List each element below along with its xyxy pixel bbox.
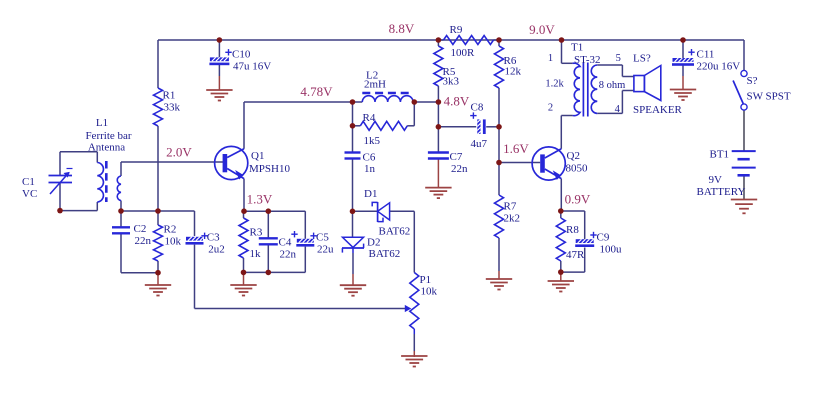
svg-text:2mH: 2mH [364, 79, 386, 91]
svg-text:22n: 22n [135, 235, 152, 247]
svg-text:3k3: 3k3 [443, 76, 460, 88]
svg-text:33k: 33k [164, 102, 181, 114]
svg-text:ST-32: ST-32 [574, 54, 601, 66]
svg-text:9.0V: 9.0V [529, 22, 555, 37]
svg-text:R8: R8 [566, 224, 579, 236]
svg-text:1.6V: 1.6V [503, 141, 529, 156]
svg-text:8 ohm: 8 ohm [599, 80, 626, 91]
svg-text:MPSH10: MPSH10 [249, 163, 290, 175]
svg-text:R4: R4 [363, 112, 376, 124]
svg-text:2k2: 2k2 [504, 213, 521, 225]
svg-text:C10: C10 [232, 49, 251, 61]
svg-text:1n: 1n [364, 163, 376, 175]
svg-text:4.8V: 4.8V [444, 94, 470, 109]
svg-text:4: 4 [615, 104, 621, 115]
svg-text:22n: 22n [280, 249, 297, 261]
svg-text:22u: 22u [317, 244, 334, 256]
svg-text:8050: 8050 [566, 163, 589, 175]
svg-text:1.2k: 1.2k [545, 79, 564, 90]
svg-text:D2: D2 [367, 237, 380, 249]
svg-text:C8: C8 [471, 102, 484, 114]
svg-text:0.9V: 0.9V [565, 192, 591, 207]
svg-text:BATTERY: BATTERY [697, 186, 746, 198]
svg-text:8.8V: 8.8V [389, 21, 415, 36]
svg-text:Antenna: Antenna [88, 142, 125, 154]
svg-text:100u: 100u [600, 244, 623, 256]
svg-text:Q2: Q2 [567, 150, 580, 162]
svg-text:4.78V: 4.78V [300, 84, 333, 99]
svg-text:VC: VC [22, 188, 37, 200]
svg-text:22n: 22n [451, 163, 468, 175]
svg-text:10k: 10k [165, 236, 182, 248]
svg-text:R3: R3 [250, 227, 263, 239]
svg-text:5: 5 [616, 53, 621, 64]
svg-text:C4: C4 [279, 237, 292, 249]
svg-text:R9: R9 [450, 24, 463, 36]
svg-text:9V: 9V [709, 174, 723, 186]
svg-text:BT1: BT1 [710, 149, 730, 161]
svg-text:SW SPST: SW SPST [747, 91, 791, 103]
svg-text:R2: R2 [164, 224, 177, 236]
svg-text:2u2: 2u2 [208, 244, 225, 256]
svg-text:1k: 1k [250, 248, 262, 260]
svg-text:L1: L1 [96, 117, 108, 129]
svg-text:47R: 47R [566, 249, 585, 261]
svg-text:C9: C9 [597, 232, 610, 244]
svg-text:C2: C2 [134, 223, 147, 235]
svg-text:10k: 10k [421, 286, 438, 298]
svg-text:Ferrite bar: Ferrite bar [85, 130, 131, 142]
svg-text:12k: 12k [505, 66, 522, 78]
svg-text:47u 16V: 47u 16V [233, 61, 271, 73]
svg-text:220u 16V: 220u 16V [697, 61, 741, 73]
svg-text:BAT62: BAT62 [379, 226, 411, 238]
svg-text:C3: C3 [207, 232, 220, 244]
svg-text:C7: C7 [450, 151, 463, 163]
svg-text:C1: C1 [22, 176, 35, 188]
svg-text:P1: P1 [420, 274, 432, 286]
svg-text:BAT62: BAT62 [369, 248, 401, 260]
svg-text:C6: C6 [363, 152, 376, 164]
svg-text:4u7: 4u7 [471, 138, 488, 150]
svg-text:1k5: 1k5 [364, 135, 381, 147]
svg-text:S?: S? [747, 75, 758, 87]
svg-text:R7: R7 [504, 201, 517, 213]
svg-text:100R: 100R [451, 47, 476, 59]
svg-text:Q1: Q1 [251, 150, 264, 162]
svg-text:T1: T1 [571, 42, 583, 54]
svg-text:SPEAKER: SPEAKER [633, 104, 683, 116]
svg-text:C5: C5 [316, 232, 329, 244]
svg-text:2: 2 [548, 103, 553, 114]
svg-text:C11: C11 [697, 49, 715, 61]
svg-text:2.0V: 2.0V [166, 145, 192, 160]
svg-text:LS?: LS? [633, 53, 651, 65]
svg-text:D1: D1 [364, 188, 377, 200]
svg-text:1: 1 [548, 53, 553, 64]
svg-text:1.3V: 1.3V [247, 192, 273, 207]
svg-text:R1: R1 [163, 90, 176, 102]
